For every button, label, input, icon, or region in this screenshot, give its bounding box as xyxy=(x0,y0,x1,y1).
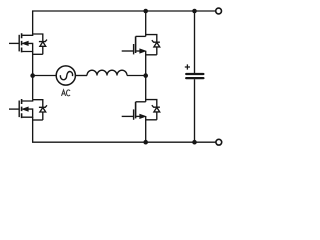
label + (C1 polarity) xyxy=(185,64,190,69)
junction top rail / Q3 drain xyxy=(143,9,148,14)
junction top rail / C1 xyxy=(192,9,197,14)
capacitor C1 xyxy=(186,74,203,78)
diode D1 (body diode of Q1) xyxy=(33,34,47,54)
wire AC source to inductor xyxy=(75,75,87,77)
diode D2 (body diode of Q2) xyxy=(33,100,47,120)
wire C1 top lead xyxy=(194,11,196,73)
wire inductor to node B xyxy=(127,75,146,77)
wire node B to Q4 drain xyxy=(145,76,147,102)
wire bottom rail xyxy=(32,141,216,143)
transistor Q1 (top-left MOSFET) xyxy=(9,33,33,52)
wire Q1 drain stub xyxy=(32,11,34,34)
junction bottom rail / C1 xyxy=(192,140,197,145)
wire Q2 source to bottom rail xyxy=(32,117,34,142)
terminal - output (bottom right) xyxy=(216,139,222,145)
AC source V1 xyxy=(56,66,75,85)
wire Q4 source to bottom rail xyxy=(145,120,147,142)
transistor Q4 (bottom-right MOSFET) xyxy=(122,102,157,120)
transistor Q2 (bottom-left MOSFET) xyxy=(9,99,33,118)
wire node A to Q2 drain xyxy=(32,76,34,100)
diode D4 (body diode of Q4) xyxy=(146,100,160,120)
transistor Q3 (top-right MOSFET) xyxy=(122,36,157,54)
terminal + output (top right) xyxy=(216,8,222,14)
label AC xyxy=(62,90,71,96)
wire Q3 source to node B xyxy=(145,55,147,76)
junction bottom rail / Q4 source xyxy=(143,140,148,145)
wire C1 bottom lead xyxy=(194,79,196,142)
wire D1 bottom connector xyxy=(33,53,43,55)
node A (left bridge midpoint junction) xyxy=(30,73,35,78)
wire node A to AC source xyxy=(33,75,57,77)
diode D3 (body diode of Q3) xyxy=(146,35,160,55)
wire Q1 source to node A xyxy=(32,52,34,76)
wire D2 bottom connector xyxy=(33,119,43,121)
wire Q3 drain stub xyxy=(145,11,147,36)
inductor L1 xyxy=(87,70,127,75)
node B (right bridge midpoint junction) xyxy=(143,73,148,78)
wire top rail xyxy=(32,10,215,12)
